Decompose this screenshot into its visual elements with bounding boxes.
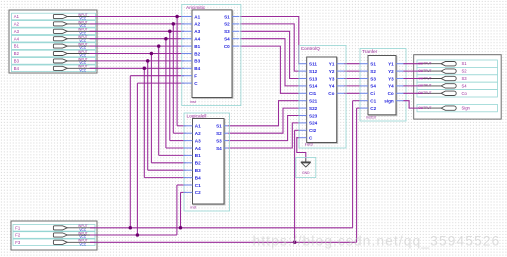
wire net Tranfer output 1 to output port — [404, 63, 423, 65]
svg-text:A4: A4 — [14, 36, 20, 41]
wire net B1: input to Aricimitic B1 — [90, 45, 185, 47]
svg-text:S1: S1 — [370, 62, 376, 67]
pin S1 of U2 — [216, 124, 228, 129]
wire net F3: branch up to ControlQ pin CI2 — [294, 130, 296, 242]
svg-text:Y1: Y1 — [329, 62, 335, 67]
svg-text:S3: S3 — [224, 29, 230, 34]
pin A3 of U2 — [184, 138, 201, 143]
wire net Tranfer output 3 to output port — [404, 78, 423, 80]
pin Y2 of U4 — [388, 69, 404, 74]
pin S24 of U3 — [299, 121, 318, 126]
wire net Aricimitic C0 to ControlQ S1CI1 — [240, 46, 299, 93]
svg-text:Y2: Y2 — [329, 69, 335, 74]
input port A4 — [12, 35, 96, 43]
pin B3 of U2 — [184, 168, 201, 173]
junction F3 / ControlQ CI2 — [293, 241, 297, 245]
pin S1 of U4 — [360, 62, 376, 67]
wire net Tranfer output 5 to output port — [404, 92, 423, 94]
wire net F3: rise to Tranfer pin C2 — [356, 108, 358, 242]
input port B4 — [12, 65, 96, 73]
output port group box — [414, 55, 502, 119]
svg-text:S3: S3 — [370, 76, 376, 81]
pin Y4 of U3 — [329, 84, 345, 89]
pin A1 of U2 — [184, 124, 201, 129]
svg-text:Y2: Y2 — [388, 69, 394, 74]
svg-text:VCC: VCC — [79, 68, 86, 72]
wire net F2: rise to Logicalell pin C1 — [176, 185, 178, 235]
input port A3 — [12, 28, 96, 36]
pin CI2 of U3 — [299, 128, 317, 133]
svg-text:C2: C2 — [195, 190, 201, 195]
junction B2 — [150, 52, 154, 56]
wire net A3: input to Aricimitic A3 — [90, 30, 185, 32]
pin Y2 of U3 — [329, 69, 345, 74]
svg-text:A2: A2 — [14, 22, 20, 27]
pin S4 of U4 — [360, 84, 376, 89]
pin B1 of U2 — [184, 153, 201, 158]
pin Ci of U4 — [360, 91, 375, 96]
svg-text:A1: A1 — [194, 14, 200, 19]
block U1 Aricimitic symbol boundary — [182, 5, 241, 106]
wire net Aricimitic S1 to ControlQ S11 — [240, 17, 299, 64]
output port S2 — [417, 67, 497, 74]
svg-text:GND: GND — [302, 171, 310, 175]
svg-text:F2: F2 — [15, 233, 21, 238]
input port B1 — [12, 43, 96, 51]
output port S3 — [417, 75, 497, 82]
wire net ControlQ C to ground — [297, 138, 306, 159]
svg-text:F1: F1 — [15, 225, 21, 230]
wire net A3: vertical to Logicalell A3 — [169, 31, 171, 140]
pin Y1 of U3 — [329, 62, 345, 67]
svg-text:B4: B4 — [195, 175, 201, 180]
wire net ControlQ Y4 to Tranfer — [344, 85, 360, 87]
svg-text:inst: inst — [191, 205, 198, 209]
pin S13 of U3 — [299, 76, 318, 81]
pin S22 of U3 — [299, 106, 318, 111]
svg-text:S22: S22 — [309, 106, 318, 111]
pin Co of U3 — [328, 91, 344, 96]
svg-text:inst10: inst10 — [366, 115, 376, 119]
svg-text:B4: B4 — [14, 66, 20, 71]
input port F2 — [13, 231, 95, 239]
svg-text:A2: A2 — [195, 131, 201, 136]
svg-text:S21: S21 — [309, 99, 318, 104]
svg-text:Co: Co — [388, 91, 394, 96]
wire net B1: vertical to Logicalell B1 — [158, 46, 160, 155]
svg-text:S3: S3 — [462, 76, 468, 81]
pin S23 of U3 — [299, 113, 318, 118]
wire net F1: rise to Tranfer pin C1 — [352, 101, 354, 228]
svg-text:Co: Co — [462, 91, 468, 96]
pin C1 of U4 — [360, 99, 377, 104]
block U4 Tranfer symbol boundary — [360, 49, 406, 122]
svg-text:B2: B2 — [14, 51, 20, 56]
svg-text:A2: A2 — [194, 22, 200, 27]
svg-text:S1: S1 — [224, 14, 230, 19]
junction B4 — [143, 67, 147, 71]
pin C2 of U4 — [360, 106, 377, 111]
pin C0 of U1 — [224, 44, 240, 49]
junction F2 / Aricimitic C — [136, 233, 140, 237]
svg-text:A1: A1 — [14, 14, 20, 19]
output port Co — [417, 90, 497, 97]
pin A4 of U2 — [184, 146, 201, 151]
junction B3 — [146, 59, 150, 63]
pin S3 of U2 — [216, 138, 228, 143]
svg-text:C1: C1 — [370, 99, 376, 104]
svg-text:Y4: Y4 — [329, 84, 335, 89]
pin S3 of U1 — [224, 29, 239, 34]
svg-text:S4: S4 — [224, 37, 230, 42]
svg-text:B1: B1 — [195, 153, 201, 158]
pin B4 of U2 — [184, 175, 201, 180]
svg-text:Y3: Y3 — [329, 76, 335, 81]
junction A3 — [168, 30, 172, 34]
pin Y4 of U4 — [388, 84, 404, 89]
input port A1 — [12, 13, 96, 21]
wire net Logicalell S1 to ControlQ S21 — [228, 101, 299, 126]
wire net Logicalell S2 to ControlQ S22 — [228, 108, 299, 133]
wire net B3: vertical to Logicalell B3 — [147, 61, 149, 170]
wire net Aricimitic S2 to ControlQ S12 — [240, 24, 299, 71]
pin S12 of U3 — [299, 69, 318, 74]
pin A2 of U1 — [182, 22, 201, 27]
svg-text:Sign: Sign — [462, 106, 471, 111]
wire net ControlQ Y1 to Tranfer — [344, 63, 360, 65]
svg-text:Y4: Y4 — [388, 84, 394, 89]
input port group box (F inputs) — [11, 221, 97, 250]
pin B2 of U1 — [182, 51, 201, 56]
svg-text:B1: B1 — [14, 44, 20, 49]
input port A2 — [12, 20, 96, 28]
svg-text:S4: S4 — [370, 84, 376, 89]
wire net Tranfer output 4 to output port — [404, 85, 423, 87]
svg-text:S24: S24 — [309, 121, 318, 126]
svg-text:B3: B3 — [194, 59, 200, 64]
svg-text:S2: S2 — [216, 131, 222, 136]
pin C of U3 — [299, 136, 313, 141]
wire net B4: input to Aricimitic B4 — [90, 67, 185, 69]
svg-text:A3: A3 — [14, 29, 20, 34]
pin B4 of U1 — [182, 66, 201, 71]
wire net ControlQ Y2 to Tranfer — [344, 70, 360, 72]
block U3 body — [308, 58, 338, 143]
pin Y3 of U4 — [388, 76, 404, 81]
svg-text:CI1: CI1 — [309, 91, 317, 96]
pin CI1 of U3 — [299, 91, 317, 96]
input port F3 — [13, 239, 95, 247]
junction A2 — [172, 22, 176, 26]
svg-text:F: F — [194, 74, 197, 79]
pin B3 of U1 — [182, 59, 201, 64]
pin B1 of U1 — [182, 44, 201, 49]
junction F1 / Logicalell C2 — [179, 226, 183, 230]
svg-text:VCC: VCC — [79, 242, 86, 246]
pin Y1 of U4 — [388, 62, 404, 67]
svg-text:A3: A3 — [195, 138, 201, 143]
pin Co of U4 — [388, 91, 405, 96]
wire net A4: input to Aricimitic A4 — [90, 38, 185, 40]
ground symbol GND — [296, 158, 316, 178]
block U4 body — [369, 56, 397, 115]
pin S3 of U4 — [360, 76, 376, 81]
output port S4 — [417, 82, 497, 89]
svg-text:S2: S2 — [370, 69, 376, 74]
svg-text:A3: A3 — [194, 29, 200, 34]
wire net B4: vertical to Logicalell B4 — [143, 68, 145, 177]
wire net B2: input to Aricimitic B2 — [90, 53, 185, 55]
block U2 body — [193, 119, 225, 204]
wire net B2: vertical to Logicalell B2 — [150, 54, 152, 163]
svg-text:B3: B3 — [195, 168, 201, 173]
svg-text:C2: C2 — [370, 106, 376, 111]
pin B2 of U2 — [184, 161, 201, 166]
wire net F1: input F1 horizontal run — [90, 227, 353, 229]
wire net Aricimitic S3 to ControlQ S13 — [240, 31, 299, 78]
pin A2 of U2 — [184, 131, 201, 136]
svg-text:C1: C1 — [195, 183, 201, 188]
pin C2 of U2 — [184, 190, 201, 195]
input port B3 — [12, 57, 96, 65]
svg-text:https://blog.csdn.net/qq_35945: https://blog.csdn.net/qq_35945526 — [253, 233, 501, 249]
pin S1 of U1 — [224, 14, 239, 19]
pin A4 of U1 — [182, 37, 201, 42]
svg-text:B2: B2 — [195, 161, 201, 166]
svg-text:Y1: Y1 — [388, 62, 394, 67]
wire net A2: input to Aricimitic A2 — [90, 23, 185, 25]
svg-text:inst: inst — [190, 100, 197, 104]
pin A1 of U1 — [182, 14, 201, 19]
wire net B3: input to Aricimitic B3 — [90, 60, 185, 62]
wire net Aricimitic S4 to ControlQ S14 — [240, 39, 299, 86]
svg-text:F3: F3 — [15, 240, 21, 245]
wire net F2: branch up to Aricimitic pin C — [136, 83, 138, 235]
svg-text:A1: A1 — [195, 124, 201, 129]
pin sign of U4 — [384, 99, 404, 104]
svg-text:Co: Co — [328, 91, 334, 96]
output port Sign — [417, 104, 497, 111]
svg-text:S13: S13 — [309, 76, 318, 81]
wire net ControlQ Y3 to Tranfer — [344, 78, 360, 80]
block U2 Logicalell symbol boundary — [184, 113, 230, 211]
pin S14 of U3 — [299, 84, 318, 89]
pin F of U1 — [182, 74, 198, 79]
pin C1 of U2 — [184, 183, 201, 188]
pin S2 of U1 — [224, 22, 239, 27]
svg-text:C0: C0 — [224, 44, 230, 49]
block U1 body — [193, 11, 233, 99]
output port S1 — [417, 60, 497, 67]
svg-text:S11: S11 — [309, 62, 317, 67]
pin S21 of U3 — [299, 99, 318, 104]
wire net Tranfer sign to Sign output port — [404, 101, 423, 108]
svg-text:S14: S14 — [309, 84, 318, 89]
svg-text:A4: A4 — [195, 146, 201, 151]
svg-text:inst3: inst3 — [305, 142, 313, 146]
pin Y3 of U3 — [329, 76, 345, 81]
svg-text:S4: S4 — [462, 83, 468, 88]
input port group box (A/B inputs) — [9, 10, 97, 73]
svg-text:Tranfer: Tranfer — [362, 49, 378, 55]
input port B2 — [12, 50, 96, 58]
wire net F1: branch up to Aricimitic pin F — [129, 76, 131, 228]
wire net Tranfer output 2 to output port — [404, 70, 423, 72]
input port F1 — [13, 224, 95, 232]
svg-text:B2: B2 — [194, 51, 200, 56]
pin S11 of U3 — [299, 62, 317, 67]
wire net F1: branch up to Logicalell pin C2 — [180, 192, 182, 227]
svg-text:Y3: Y3 — [388, 76, 394, 81]
wire net A4: vertical to Logicalell A4 — [165, 39, 167, 148]
pin C of U1 — [182, 81, 199, 86]
wire net F2: input F2 horizontal run — [90, 234, 177, 236]
pin S4 of U1 — [224, 37, 239, 42]
wire net ControlQ YCo to Tranfer — [344, 92, 360, 94]
wire net A1: input to Aricimitic A1 — [90, 16, 185, 18]
pin A3 of U1 — [182, 29, 201, 34]
wire net Logicalell S3 to ControlQ S23 — [228, 116, 299, 141]
svg-text:S1: S1 — [462, 61, 468, 66]
svg-text:S12: S12 — [309, 69, 318, 74]
svg-text:S23: S23 — [309, 113, 318, 118]
pin S2 of U2 — [216, 131, 228, 136]
junction A4 — [164, 37, 168, 41]
pin S2 of U4 — [360, 69, 376, 74]
svg-text:ControlQ: ControlQ — [301, 46, 320, 52]
pin S4 of U2 — [216, 146, 228, 151]
wire net Logicalell S4 to ControlQ S24 — [228, 123, 299, 148]
wire net A1: vertical to Logicalell A1 — [176, 17, 178, 126]
svg-text:S4: S4 — [216, 146, 222, 151]
svg-text:S2: S2 — [462, 69, 468, 74]
wire net A2: vertical to Logicalell A2 — [172, 24, 174, 133]
junction A1 — [175, 15, 179, 19]
junction F1 / Aricimitic F — [129, 226, 133, 230]
svg-text:S2: S2 — [224, 22, 230, 27]
svg-text:sign: sign — [384, 99, 394, 104]
svg-text:CI2: CI2 — [309, 128, 317, 133]
svg-text:A4: A4 — [194, 37, 200, 42]
svg-text:B3: B3 — [14, 59, 20, 64]
wire net F3: input F3 horizontal run — [90, 241, 357, 243]
block U3 ControlQ symbol boundary — [299, 46, 346, 149]
svg-text:B4: B4 — [194, 66, 200, 71]
svg-text:B1: B1 — [194, 44, 200, 49]
svg-text:Ci: Ci — [370, 91, 375, 96]
svg-text:S1: S1 — [216, 124, 222, 129]
junction B1 — [157, 44, 161, 48]
svg-text:S3: S3 — [216, 138, 222, 143]
